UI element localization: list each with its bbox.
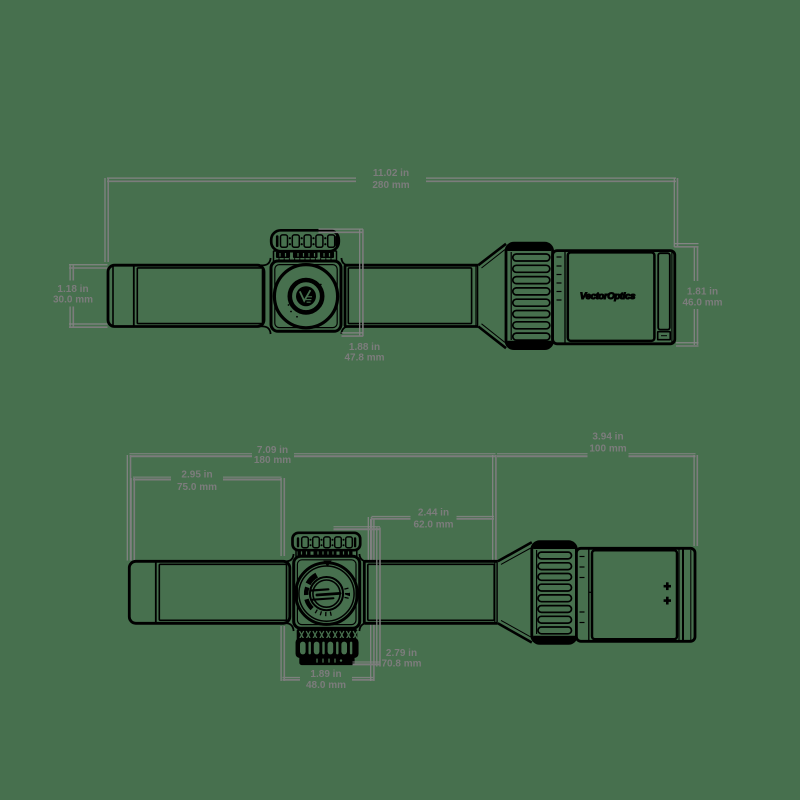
svg-text:11.02 in: 11.02 in — [373, 168, 409, 179]
svg-text:47.8 mm: 47.8 mm — [344, 352, 384, 363]
svg-text:1.81 in: 1.81 in — [687, 287, 718, 298]
svg-text:2.44 in: 2.44 in — [418, 508, 449, 519]
svg-text:180 mm: 180 mm — [254, 455, 291, 466]
svg-text:VectorOptics: VectorOptics — [580, 291, 635, 302]
svg-text:1.89 in: 1.89 in — [310, 669, 341, 680]
svg-text:30.0 mm: 30.0 mm — [53, 294, 93, 305]
svg-text:70.8 mm: 70.8 mm — [381, 659, 421, 670]
svg-text:280 mm: 280 mm — [372, 180, 409, 191]
svg-text:2.95 in: 2.95 in — [181, 470, 212, 481]
svg-text:3.94 in: 3.94 in — [592, 432, 623, 443]
svg-text:62.0 mm: 62.0 mm — [413, 519, 453, 530]
svg-text:46.0 mm: 46.0 mm — [682, 298, 722, 309]
svg-text:2.79 in: 2.79 in — [386, 648, 417, 659]
svg-text:1.88 in: 1.88 in — [349, 342, 380, 353]
svg-text:7.09 in: 7.09 in — [257, 445, 288, 456]
svg-text:1.18 in: 1.18 in — [57, 284, 88, 295]
svg-text:75.0 mm: 75.0 mm — [177, 482, 217, 493]
svg-text:100 mm: 100 mm — [589, 443, 626, 454]
svg-text:48.0 mm: 48.0 mm — [306, 680, 346, 691]
